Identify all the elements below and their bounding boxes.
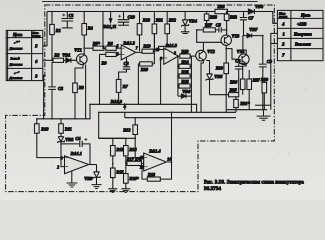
svg-text:3: 3 <box>61 157 63 161</box>
wire junction R19 right <box>153 34 154 64</box>
wire rail L5 <box>125 112 236 117</box>
wire <box>228 11 249 13</box>
resistor R9 <box>100 52 122 65</box>
resistor R6 <box>106 41 121 51</box>
capacitor C4 <box>61 136 90 164</box>
svg-text:DA1.3: DA1.3 <box>165 43 178 48</box>
svg-text:5: 5 <box>35 44 37 49</box>
wire row2 from table <box>43 59 53 61</box>
svg-text:R7: R7 <box>123 84 129 89</box>
resistor R19 <box>142 44 153 54</box>
wire ladder right vertical <box>190 56 192 112</box>
svg-text:R29: R29 <box>216 65 224 70</box>
resistor R24 <box>178 60 192 69</box>
svg-text:R21: R21 <box>156 18 163 23</box>
svg-text:R23: R23 <box>181 49 189 54</box>
svg-text:R19: R19 <box>143 44 151 49</box>
svg-text:R4: R4 <box>88 25 94 30</box>
resistor R25 <box>178 69 192 78</box>
svg-text:C5: C5 <box>216 23 222 28</box>
wire to pin4 <box>254 12 277 24</box>
svg-text:R9: R9 <box>102 61 108 66</box>
ground <box>118 24 129 26</box>
transistor VT4 <box>237 49 249 65</box>
svg-text:VD8: VD8 <box>255 4 264 9</box>
svg-text:Катушка: Катушка <box>293 31 312 36</box>
resistor R26 <box>178 79 192 88</box>
node DA1 pin9 label <box>110 99 126 110</box>
svg-text:R18: R18 <box>148 172 156 177</box>
svg-text:R20: R20 <box>141 67 149 72</box>
svg-text:R32: R32 <box>230 14 238 19</box>
svg-text:Выход: Выход <box>11 57 20 61</box>
wire to DA1.3 pin10 <box>154 49 163 51</box>
transistor VT1 <box>74 48 87 65</box>
resistor R35 <box>210 88 239 97</box>
resistor R15 <box>111 168 125 189</box>
svg-text:R11: R11 <box>65 127 72 132</box>
resistor R28 <box>204 12 218 30</box>
resistor R30 <box>261 77 269 110</box>
svg-text:C4: C4 <box>75 136 81 141</box>
resistor R17 <box>126 156 144 166</box>
svg-text:R3: R3 <box>79 85 85 90</box>
svg-text:R30: R30 <box>261 77 269 82</box>
svg-text:R31*: R31* <box>240 101 250 106</box>
svg-text:такт: такт <box>32 34 41 38</box>
resistor R37 <box>247 70 261 110</box>
wire rail L3 <box>99 111 236 113</box>
svg-text:такт: такт <box>279 15 288 19</box>
svg-text:C3: C3 <box>124 61 130 66</box>
resistor R33 <box>215 4 228 14</box>
ground <box>181 32 190 34</box>
svg-text:R27: R27 <box>205 23 213 28</box>
resistor R16 <box>124 174 140 189</box>
ground <box>67 171 78 187</box>
svg-text:R33: R33 <box>218 4 226 9</box>
svg-text:C10: C10 <box>128 15 136 20</box>
node DA1 pin11 arrow <box>102 12 116 49</box>
svg-text:1: 1 <box>283 31 285 36</box>
svg-text:10: 10 <box>156 48 160 52</box>
svg-text:R6: R6 <box>108 41 114 46</box>
wire pin12 <box>135 138 144 157</box>
resistor R7 <box>116 79 128 104</box>
svg-text:Датчика: Датчика <box>9 63 23 67</box>
svg-text:R10: R10 <box>41 127 49 132</box>
svg-text:3: 3 <box>34 74 37 79</box>
wire DA1.4 output up <box>166 112 171 162</box>
resistor R12 <box>123 118 137 139</box>
wire VT2 collector up <box>202 42 204 51</box>
diode VD6 <box>178 89 192 98</box>
capacitor C7 <box>240 12 254 36</box>
svg-text:R25: R25 <box>181 69 189 74</box>
resistor R20 <box>138 62 154 105</box>
wire DA1.3 output <box>178 56 180 96</box>
border dash-dot device boundary <box>6 5 275 192</box>
svg-text:R5*: R5* <box>93 41 101 46</box>
resistor R13 <box>111 138 125 168</box>
svg-text:VD1: VD1 <box>62 53 70 58</box>
resistor R3 <box>73 83 85 119</box>
wire top +12V rail <box>47 11 215 13</box>
wire VT2 emitter down <box>201 60 203 112</box>
svg-text:C2: C2 <box>58 86 64 91</box>
op-amp DA1.4 <box>140 148 171 171</box>
svg-text:DA1.1: DA1.1 <box>70 151 82 156</box>
svg-text:C8: C8 <box>235 58 241 63</box>
svg-text:DA1.2: DA1.2 <box>122 40 135 45</box>
ground <box>92 185 102 189</box>
svg-text:VT1: VT1 <box>74 48 82 53</box>
caption text <box>204 181 304 193</box>
svg-text:VT2: VT2 <box>207 49 215 54</box>
svg-text:R24: R24 <box>181 60 189 65</box>
capacitor C2 <box>48 62 64 119</box>
ground <box>121 189 130 193</box>
svg-text:6: 6 <box>117 52 119 56</box>
svg-text:VD3: VD3 <box>84 176 93 181</box>
svg-text:R2: R2 <box>54 53 60 58</box>
svg-text:VD4: VD4 <box>189 19 198 24</box>
svg-text:C9: C9 <box>267 59 273 64</box>
svg-text:VD2: VD2 <box>65 137 74 142</box>
wire DA1.3 pin9 down <box>161 58 164 104</box>
scan artifact top line <box>42 0 258 2</box>
op-amp DA1.3 <box>156 43 179 64</box>
wire R27 left leg to VT3 base <box>197 30 221 42</box>
svg-text:Цепь: Цепь <box>300 12 310 17</box>
wire rail L1 <box>90 104 197 112</box>
wire <box>255 104 271 106</box>
resistor R29 <box>216 45 239 112</box>
svg-text:R28: R28 <box>210 14 218 19</box>
svg-text:14: 14 <box>167 157 171 161</box>
resistor R21 <box>152 12 163 52</box>
svg-text:VD7: VD7 <box>249 27 258 32</box>
svg-text:R14: R14 <box>129 147 137 152</box>
svg-text:Рис. 3.56. Электрическая сх: Рис. 3.56. Электрическая схема коммутато… <box>204 181 304 186</box>
op-amp DA1.2 <box>117 40 138 60</box>
svg-text:R18: R18 <box>143 18 151 23</box>
svg-text:8: 8 <box>174 52 176 56</box>
resistor R11 <box>59 119 72 167</box>
zener VD2 <box>58 137 75 143</box>
zener VD4 <box>182 12 198 32</box>
resistor R14 <box>124 138 138 173</box>
capacitor C1 <box>61 12 73 28</box>
svg-text:DA1,11: DA1,11 <box>102 24 116 29</box>
svg-text:R36: R36 <box>230 79 238 84</box>
ground <box>62 27 73 29</box>
svg-text:Датчика: Датчика <box>9 76 23 80</box>
wire row2 stub <box>271 43 278 45</box>
resistor R31 <box>234 97 251 113</box>
zener VD5 <box>206 61 223 95</box>
capacitor C8 <box>235 58 246 92</box>
svg-text:2: 2 <box>281 41 284 46</box>
svg-text:R35: R35 <box>230 88 238 93</box>
wire right lower bus <box>227 109 267 111</box>
resistor R2 <box>53 53 64 63</box>
svg-text:Цепь: Цепь <box>12 32 22 37</box>
wire DA1.2 output <box>136 51 142 52</box>
svg-text:DA1,9: DA1,9 <box>110 99 123 104</box>
right connector table <box>277 10 323 60</box>
left connector table <box>6 30 43 80</box>
svg-text:R22: R22 <box>169 18 177 23</box>
resistor R5 <box>84 41 106 51</box>
wire VT4 emitter <box>243 63 247 79</box>
svg-text:C1: C1 <box>69 13 74 18</box>
svg-text:4: 4 <box>281 21 284 26</box>
svg-text:R26: R26 <box>181 79 189 84</box>
resistor R27 <box>197 23 216 33</box>
capacitor C3 <box>119 58 131 79</box>
ground <box>108 189 117 193</box>
svg-text:5: 5 <box>117 45 119 49</box>
resistor R38 <box>142 162 172 181</box>
resistor R10 <box>35 119 65 158</box>
svg-text:VD5: VD5 <box>214 74 223 79</box>
resistor R1 <box>50 12 61 61</box>
resistor R22 <box>159 12 177 50</box>
zener VD3 <box>84 165 100 185</box>
svg-text:R1: R1 <box>56 28 61 33</box>
capacitor C9 <box>259 59 273 67</box>
wire row1 katushka <box>271 33 278 109</box>
wire rail L4 <box>36 104 90 119</box>
wire DA1.1 output <box>89 164 97 166</box>
capacitor C5 <box>215 23 226 33</box>
wire VT4 collector up <box>243 36 247 55</box>
svg-text:DA1.4: DA1.4 <box>148 148 161 153</box>
wire coil output vertical <box>262 36 264 110</box>
wire top of R13 R14 <box>99 137 126 139</box>
svg-text:2: 2 <box>57 166 59 170</box>
resistor R32 <box>224 12 238 36</box>
svg-text:36.3734: 36.3734 <box>204 187 221 192</box>
resistor R4 <box>82 12 94 56</box>
svg-text:+12В: +12В <box>297 21 307 26</box>
transistor VT3 <box>221 33 240 45</box>
svg-text:R37: R37 <box>253 77 261 82</box>
diode VD1 <box>62 53 76 63</box>
op-amp DA1.1 <box>57 151 88 174</box>
svg-text:C7: C7 <box>248 15 254 20</box>
svg-text:VT3: VT3 <box>232 33 240 38</box>
wire feedback vertical <box>99 112 136 138</box>
svg-text:VD6: VD6 <box>182 89 191 94</box>
capacitor C10 <box>118 12 136 26</box>
diode VD7 <box>247 27 263 38</box>
wire R9 left to rail <box>99 54 101 104</box>
resistor R36 <box>230 79 245 95</box>
wire row3 stub <box>43 75 46 119</box>
wire VT1 emitter to R3 <box>75 64 86 119</box>
svg-text:Датчика: Датчика <box>9 47 23 51</box>
resistor R23 <box>180 49 196 58</box>
svg-text:Вкл.заж: Вкл.заж <box>294 41 311 46</box>
transistor VT2 <box>196 49 216 61</box>
wire sensor+ drop <box>43 12 47 46</box>
ground <box>257 110 271 121</box>
resistor R18 <box>137 12 151 52</box>
diode VD8 <box>248 4 264 14</box>
svg-text:12: 12 <box>140 156 144 160</box>
svg-text:7: 7 <box>136 47 138 51</box>
